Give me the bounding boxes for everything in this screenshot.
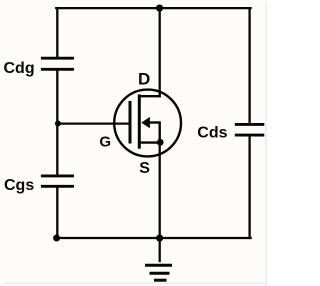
wire bottom rail <box>56 237 250 239</box>
frame border right <box>265 2 267 286</box>
wire left rail upper (top rail to Cdg) <box>56 8 58 57</box>
transistor Q1 arrowhead <box>141 117 150 128</box>
junction dot top (drain node) <box>156 5 163 12</box>
junction dot bottom center (source node) <box>156 235 163 242</box>
svg-text:S: S <box>139 160 150 177</box>
capacitor Cdg <box>41 58 74 69</box>
wire right rail upper (top rail to Cds) <box>248 8 250 123</box>
wire right rail lower (Cds to bottom rail) <box>248 136 250 238</box>
svg-text:D: D <box>138 70 150 89</box>
wire left rail lower (Cgs to bottom rail) <box>56 188 58 239</box>
transistor Q1 drain stub <box>139 95 161 97</box>
capacitor Cds <box>235 124 264 135</box>
wire source lead <box>159 143 161 238</box>
wire top rail <box>56 7 250 9</box>
svg-text:G: G <box>99 134 111 151</box>
wire gate lead <box>57 122 129 124</box>
transistor Q1 gate bar <box>129 101 132 144</box>
transistor Q1 body stub with arrow shaft <box>146 121 161 123</box>
svg-text:Cdg: Cdg <box>4 60 35 77</box>
transistor Q1 channel bar <box>138 94 141 148</box>
ground symbol <box>145 265 172 280</box>
wire left rail middle (Cdg to Cgs) <box>56 71 58 175</box>
wire ground stub <box>159 238 161 261</box>
capacitor Cgs <box>41 176 74 186</box>
svg-text:Cgs: Cgs <box>4 177 34 194</box>
transistor Q1 source stub <box>139 141 161 143</box>
svg-text:Cds: Cds <box>197 125 227 142</box>
wire drain lead <box>159 8 161 96</box>
frame border bottom <box>4 282 268 284</box>
junction dot body-source <box>157 139 164 146</box>
junction dot gate node <box>55 121 61 127</box>
transistor Q1 body circle <box>114 90 181 157</box>
junction dot bottom left <box>53 235 60 242</box>
transistor Q1 body-to-source vertical <box>158 123 160 143</box>
